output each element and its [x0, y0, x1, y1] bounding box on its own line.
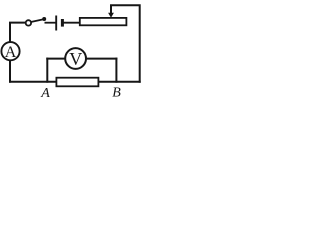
- svg-text:V: V: [69, 49, 82, 69]
- wire voltmeter left lead: [47, 58, 64, 60]
- node B branch wire down to bottom rail: [115, 59, 117, 82]
- resistor R1 body between A and B: [56, 78, 98, 87]
- wire battery to rheostat: [64, 22, 80, 24]
- wire left rail bottom: ammeter to bottom-left corner: [9, 61, 11, 82]
- wire right rail and top-right: slider to corner down to bottom: [111, 5, 140, 82]
- rheostat R2 body: [80, 18, 127, 25]
- svg-text:B: B: [112, 85, 121, 98]
- battery cell long positive plate: [55, 16, 57, 31]
- voltmeter U2 circle: [65, 48, 86, 69]
- switch S1 open circle terminal: [26, 20, 31, 25]
- wire bottom rail right: resistor to bottom-right corner, through node B: [98, 81, 139, 83]
- wire top-left: left rail top to switch: [10, 23, 26, 42]
- svg-text:A: A: [5, 44, 17, 61]
- switch S1 lever end dot: [42, 17, 46, 21]
- rheostat R2 slider arrowhead: [108, 13, 114, 18]
- battery cell short negative plate: [61, 19, 64, 27]
- node A branch wire down to bottom rail: [46, 59, 48, 82]
- wire voltmeter right lead: [87, 58, 117, 60]
- wire switch to battery: [45, 22, 55, 24]
- rheostat R2 slider stem: [110, 5, 112, 13]
- svg-text:A: A: [40, 86, 50, 98]
- ammeter U1 circle: [1, 42, 19, 60]
- wire bottom rail left: corner to resistor, through node A: [10, 81, 56, 83]
- switch S1 lever arm: [31, 19, 43, 22]
